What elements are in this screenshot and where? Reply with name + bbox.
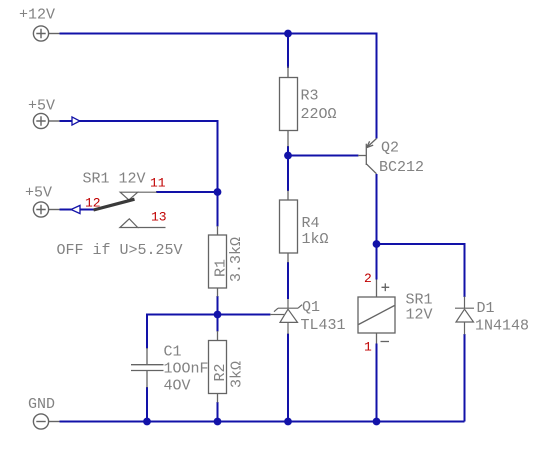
junction node at +12V / R3	[284, 30, 292, 38]
wire reference node: C1 top to R1/R2 node to Q1 ref	[147, 315, 271, 349]
svg-text:OFF if U>5.25V: OFF if U>5.25V	[57, 242, 183, 259]
svg-text:12V: 12V	[406, 306, 433, 323]
svg-text:12: 12	[85, 195, 101, 210]
junction node R2 / ground rail	[214, 418, 222, 426]
svg-text:SR1 12V: SR1 12V	[83, 171, 146, 188]
svg-text:R1: R1	[213, 259, 230, 277]
svg-text:1kΩ: 1kΩ	[302, 231, 329, 248]
wire relay node to D1 top	[377, 244, 465, 297]
wire base of Q2	[288, 155, 359, 157]
svg-text:13: 13	[151, 210, 167, 225]
junction node C1 / ground rail	[143, 418, 151, 426]
svg-text:3.3kΩ: 3.3kΩ	[228, 237, 245, 282]
wire C1 bottom to ground rail	[146, 387, 148, 422]
svg-text:2: 2	[364, 271, 372, 286]
junction node relay coil / ground rail	[373, 418, 381, 426]
terminal +12V	[33, 26, 59, 41]
svg-text:1OOnF: 1OOnF	[164, 360, 209, 377]
diode D1 1N4148	[455, 297, 474, 335]
svg-text:Q2: Q2	[381, 140, 399, 157]
relay contact SR1 movable arm	[94, 199, 135, 210]
wire +12V top rail to Q2 emitter	[60, 34, 377, 139]
wire ground rail	[60, 421, 465, 423]
relay coil SR1	[358, 280, 395, 344]
relay contact SR1 pin 12 arrow	[71, 205, 80, 213]
svg-text:22OΩ: 22OΩ	[301, 106, 337, 123]
svg-text:+12V: +12V	[19, 7, 55, 24]
capacitor C1	[131, 348, 164, 388]
svg-text:+5V: +5V	[28, 98, 55, 115]
svg-text:1N4148: 1N4148	[475, 318, 529, 335]
wire R3 top branch	[287, 34, 289, 69]
svg-text:R3: R3	[301, 88, 319, 105]
svg-text:11: 11	[150, 176, 166, 191]
relay contact SR1 pin 13	[120, 219, 166, 228]
resistor R4	[280, 191, 298, 263]
wire R2 bottom to ground rail	[217, 402, 219, 422]
relay contact SR1 pin 11	[120, 192, 157, 200]
resistor R3	[280, 67, 298, 147]
resistor R2	[209, 331, 227, 403]
wire D1 bottom to ground rail	[464, 334, 466, 422]
shunt regulator Q1 TL431	[270, 299, 302, 334]
wire Q2 collector to relay node	[376, 174, 378, 280]
wire R4 bottom to Q1 cathode	[287, 262, 289, 299]
svg-text:3kΩ: 3kΩ	[229, 361, 246, 388]
wire relay contact pin 11 to node	[156, 191, 217, 193]
junction node R1/R2/ref	[214, 311, 222, 319]
wire R1 bottom to R2 top	[217, 296, 219, 332]
svg-text:GND: GND	[28, 396, 55, 413]
resistor R1	[209, 226, 227, 297]
wire +5V to relay contact pin 12	[60, 209, 95, 211]
terminal GND	[33, 414, 59, 429]
terminal +5V (upper)	[33, 113, 59, 128]
svg-text:D1: D1	[477, 300, 495, 317]
junction node Q1 / ground rail	[284, 418, 292, 426]
svg-text:C1: C1	[164, 343, 182, 360]
wire +5V feed to R1 top	[60, 121, 218, 227]
wire R3 bottom to node, down to R4	[287, 146, 289, 191]
svg-text:4OV: 4OV	[164, 377, 191, 394]
terminal +5V (lower)	[33, 202, 59, 217]
svg-text:R2: R2	[212, 363, 229, 381]
wire relay coil bottom to ground rail	[376, 344, 378, 422]
junction node pin11 / R1	[214, 188, 222, 196]
wire Q1 anode to ground rail	[287, 334, 289, 422]
junction node R3/R4/Q2 base	[284, 152, 292, 160]
junction node relay / D1	[373, 240, 381, 248]
connector arrow on +5V wire	[72, 117, 80, 125]
svg-text:R4: R4	[302, 215, 320, 232]
svg-text:+5V: +5V	[25, 185, 52, 202]
svg-text:BC212: BC212	[379, 159, 424, 176]
svg-text:Q1: Q1	[302, 299, 320, 316]
svg-text:1: 1	[364, 340, 372, 355]
svg-text:TL431: TL431	[301, 317, 346, 334]
transistor Q2 BC212	[358, 139, 377, 174]
